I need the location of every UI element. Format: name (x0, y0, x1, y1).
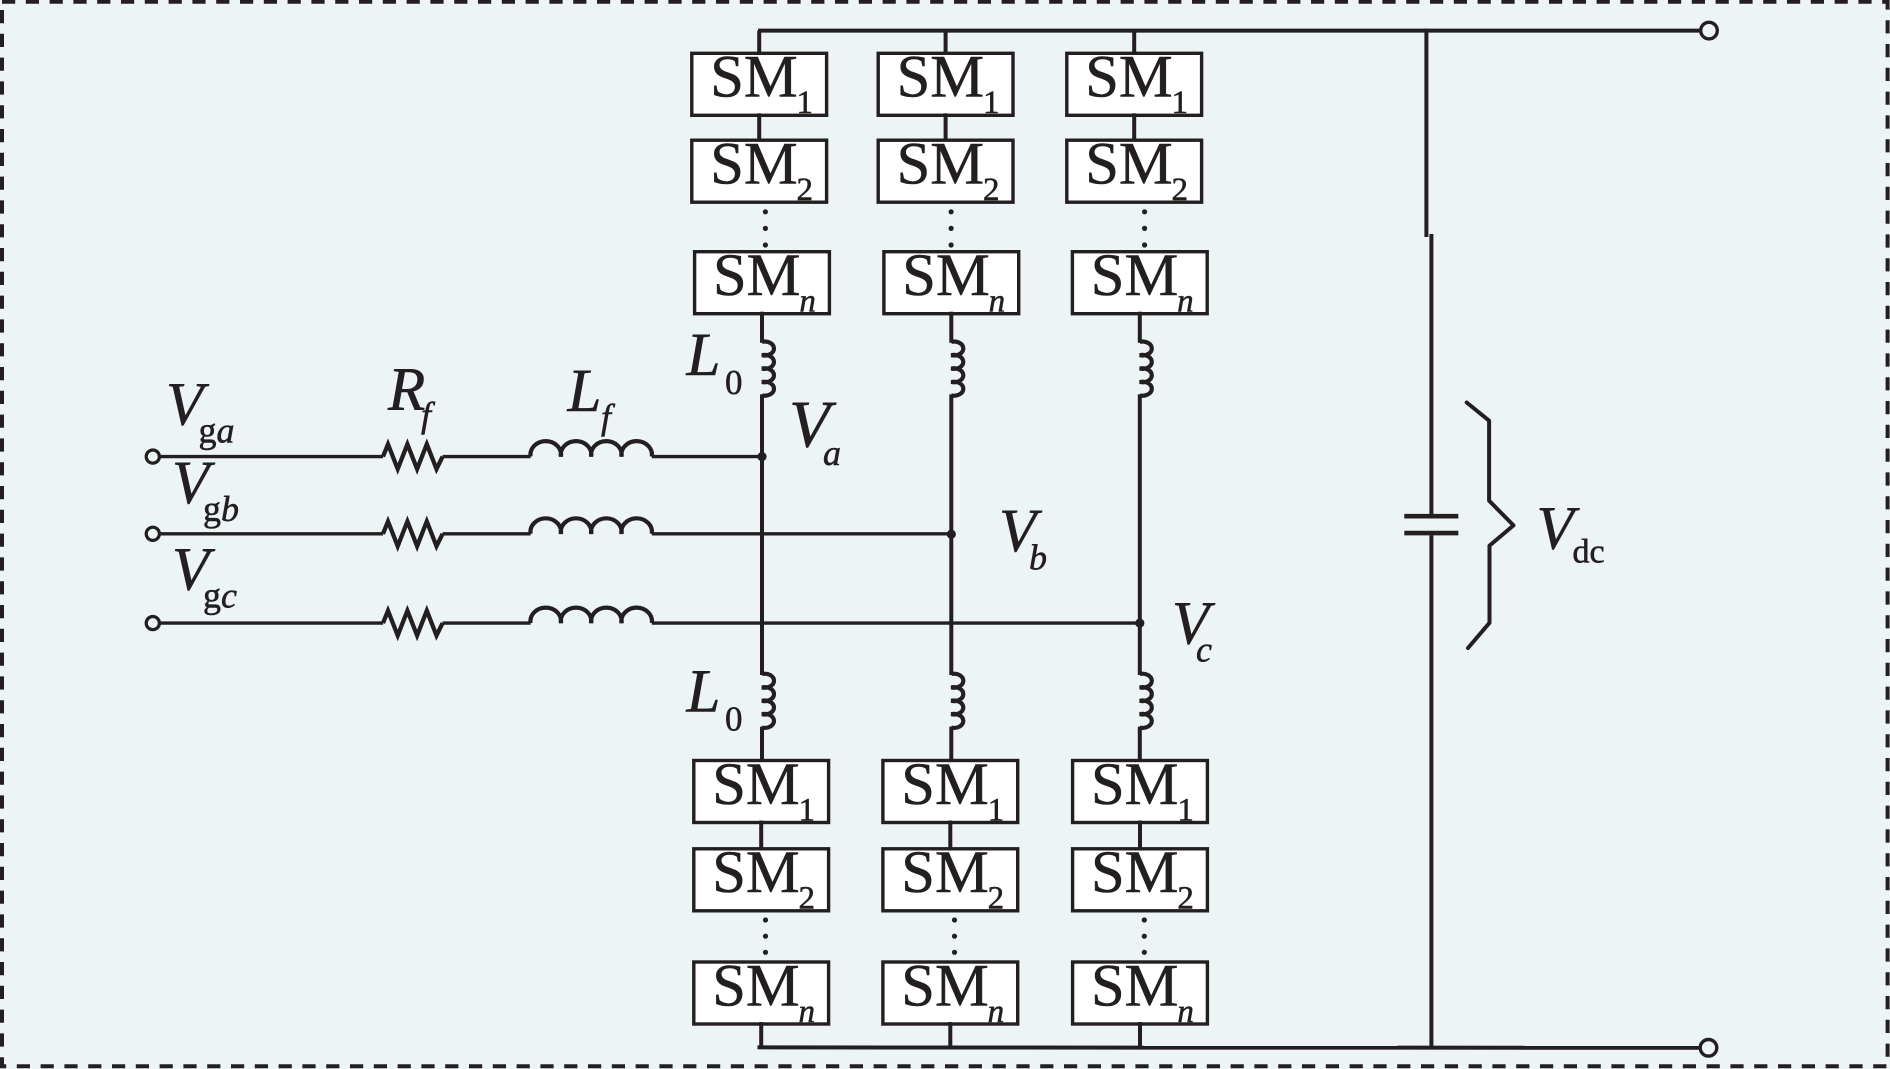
svg-text:1: 1 (1172, 85, 1189, 121)
svg-text:2: 2 (1172, 172, 1189, 208)
svg-text:0: 0 (725, 363, 743, 402)
svg-text:0: 0 (725, 700, 743, 739)
node Vb junction dot (947, 530, 956, 539)
leg a: stub from top bus to SM1 (757, 31, 761, 56)
svg-text:SM: SM (1091, 839, 1178, 906)
svg-text:SM: SM (710, 131, 797, 198)
arm inductor L0 upper leg a (762, 342, 774, 396)
svg-text:L: L (686, 322, 721, 389)
submodule SMn upper arm leg c (1072, 252, 1207, 314)
svg-text:2: 2 (988, 881, 1005, 917)
svg-text:SM: SM (901, 952, 988, 1019)
wire SM1-SM2 leg a (757, 113, 761, 142)
svg-text:SM: SM (712, 839, 799, 906)
svg-text:n: n (1177, 994, 1194, 1030)
arm inductor L0 upper leg b (951, 342, 963, 396)
svg-text:SM: SM (897, 44, 984, 111)
submodule SM2 upper arm leg c (1067, 140, 1202, 202)
wire SM1-SM2 leg b (944, 113, 948, 142)
ellipsis dots lower arm leg c (1142, 917, 1147, 922)
svg-text:1: 1 (799, 792, 816, 828)
wire: top DC bus (758, 29, 1701, 33)
svg-text:gb: gb (203, 489, 239, 529)
submodule SM2 upper arm leg a (692, 140, 827, 202)
terminal Vga input (146, 450, 159, 463)
capacitor Cdc bottom plate (1404, 531, 1458, 536)
svg-text:dc: dc (1573, 534, 1605, 571)
arm inductor L0 upper leg c (1140, 342, 1152, 396)
wire: DC bus vertical upper segment (1424, 29, 1428, 237)
capacitor Cdc top plate (1404, 514, 1458, 519)
submodule SM1 lower arm leg c (1073, 761, 1208, 823)
submodule SMn upper arm leg b (884, 252, 1019, 314)
wire SM1-SM2 lower leg b (948, 821, 952, 851)
terminal: DC- output (1700, 1040, 1717, 1057)
svg-text:SM: SM (712, 751, 799, 818)
submodule SM2 lower arm leg a (694, 849, 829, 911)
svg-text:1: 1 (988, 792, 1005, 828)
submodule SMn lower arm leg b (883, 962, 1018, 1024)
svg-text:2: 2 (797, 172, 814, 208)
filter inductor Lf phase c (530, 608, 652, 623)
svg-text:R: R (387, 356, 425, 423)
submodule SM2 lower arm leg c (1073, 849, 1208, 911)
wire SMn to arm inductor leg c (1138, 312, 1142, 343)
ellipsis dots upper arm leg b (949, 209, 954, 214)
svg-text:SM: SM (897, 131, 984, 198)
svg-text:SM: SM (901, 839, 988, 906)
wire phase a terminal to resistor (160, 455, 383, 458)
submodule SMn lower arm leg c (1073, 962, 1208, 1024)
brace for Vdc (1467, 403, 1514, 649)
wire phase b terminal to resistor (160, 532, 383, 535)
svg-text:n: n (1177, 284, 1194, 320)
filter inductor Lf phase b (530, 518, 652, 533)
submodule SM1 upper arm leg b (878, 53, 1013, 115)
svg-text:2: 2 (1177, 881, 1194, 917)
wire SM1-SM2 lower leg a (759, 821, 763, 851)
svg-text:2: 2 (799, 881, 816, 917)
svg-text:b: b (1029, 538, 1047, 578)
wire upper arm to lower arm leg a (760, 394, 764, 675)
wire upper arm to lower arm leg c (1138, 394, 1142, 675)
resistor Rf phase b (383, 521, 443, 546)
wire: capacitor to bottom DC bus (1429, 535, 1433, 1048)
wire SM1-SM2 leg c (1132, 113, 1136, 142)
terminal Vgc input (146, 617, 159, 630)
arm inductor L0 lower leg c (1140, 674, 1152, 728)
svg-text:SM: SM (901, 751, 988, 818)
svg-text:n: n (989, 284, 1006, 320)
wire inductor to lower SM1 leg a (760, 727, 764, 763)
svg-text:n: n (988, 994, 1005, 1030)
svg-text:SM: SM (713, 242, 800, 309)
svg-text:SM: SM (902, 242, 989, 309)
svg-text:2: 2 (983, 172, 1000, 208)
wire phase a inductor to junction (652, 455, 762, 458)
wire: bottom DC bus (758, 1045, 1701, 1049)
svg-text:ga: ga (199, 411, 235, 451)
wire SM1-SM2 lower leg c (1138, 821, 1142, 851)
svg-text:L: L (686, 659, 721, 726)
svg-text:1: 1 (797, 85, 814, 121)
svg-text:SM: SM (1091, 751, 1178, 818)
wire: DC bus vertical to capacitor (jogged) (1429, 234, 1433, 514)
submodule SM1 lower arm leg a (694, 761, 829, 823)
svg-text:SM: SM (1091, 242, 1178, 309)
ellipsis dots lower arm leg b (952, 917, 957, 922)
submodule SMn lower arm leg a (694, 962, 829, 1024)
svg-text:1: 1 (1177, 792, 1194, 828)
wire inductor to lower SM1 leg b (949, 727, 953, 763)
submodule SM2 lower arm leg b (883, 849, 1018, 911)
svg-text:L: L (567, 358, 602, 425)
terminal Vgb input (146, 527, 159, 540)
svg-text:n: n (799, 284, 816, 320)
svg-text:n: n (799, 994, 816, 1030)
svg-text:SM: SM (1085, 131, 1172, 198)
wire phase c terminal to resistor (160, 621, 383, 624)
svg-text:SM: SM (1091, 952, 1178, 1019)
wire SMn to arm inductor leg b (949, 312, 953, 343)
wire phase b resistor to inductor (443, 532, 531, 535)
node Va junction dot (757, 452, 766, 461)
svg-text:a: a (823, 433, 841, 473)
svg-text:gc: gc (203, 575, 237, 615)
filter inductor Lf phase a (530, 441, 652, 456)
wire SMn to bottom bus leg b (948, 1022, 952, 1047)
node Vc junction dot (1135, 619, 1144, 628)
svg-text:c: c (1196, 629, 1212, 669)
wire SMn to arm inductor leg a (760, 312, 764, 343)
svg-text:1: 1 (983, 85, 1000, 121)
wire upper arm to lower arm leg b (949, 394, 953, 675)
submodule SM1 upper arm leg c (1067, 53, 1202, 115)
submodule SM2 upper arm leg b (878, 140, 1013, 202)
svg-text:SM: SM (712, 952, 799, 1019)
resistor Rf phase a (383, 444, 443, 469)
wire phase c inductor to junction (652, 621, 1140, 624)
leg c: stub from top bus to SM1 (1132, 31, 1136, 56)
ellipsis dots upper arm leg a (763, 209, 768, 214)
submodule SMn upper arm leg a (695, 252, 830, 314)
submodule SM1 upper arm leg a (692, 53, 827, 115)
terminal: DC+ output (1701, 22, 1718, 39)
wire inductor to lower SM1 leg c (1138, 727, 1142, 763)
wire phase a resistor to inductor (443, 455, 531, 458)
resistor Rf phase c (383, 611, 443, 636)
ellipsis dots upper arm leg c (1142, 209, 1147, 214)
arm inductor L0 lower leg a (762, 674, 774, 728)
ellipsis dots lower arm leg a (763, 917, 768, 922)
svg-text:SM: SM (710, 44, 797, 111)
leg b: stub from top bus to SM1 (944, 31, 948, 56)
wire SMn to bottom bus leg a (759, 1022, 763, 1047)
submodule SM1 lower arm leg b (883, 761, 1018, 823)
svg-text:SM: SM (1085, 44, 1172, 111)
wire SMn to bottom bus leg c (1138, 1022, 1142, 1047)
arm inductor L0 lower leg b (951, 674, 963, 728)
wire phase b inductor to junction (652, 532, 952, 535)
wire phase c resistor to inductor (443, 621, 531, 624)
